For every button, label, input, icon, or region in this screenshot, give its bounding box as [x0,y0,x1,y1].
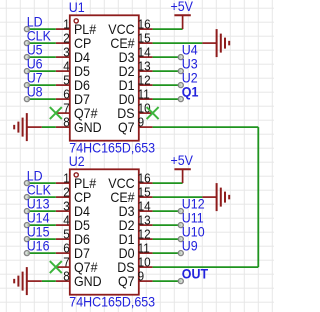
svg-text:13: 13 [138,213,151,227]
svg-text:5: 5 [63,227,70,241]
svg-text:3: 3 [63,199,70,213]
svg-text:6: 6 [63,241,70,255]
svg-text:2: 2 [63,31,70,45]
svg-text:U16: U16 [27,238,50,254]
svg-text:Q7: Q7 [118,119,135,135]
svg-text:2: 2 [63,185,70,199]
svg-text:4: 4 [63,59,70,73]
svg-text:+5V: +5V [170,153,193,169]
svg-text:7: 7 [63,101,70,115]
svg-text:11: 11 [138,241,150,255]
svg-text:14: 14 [138,45,151,59]
svg-text:U2: U2 [69,153,85,169]
svg-text:Q1: Q1 [182,84,199,100]
svg-text:4: 4 [63,213,70,227]
svg-text:14: 14 [138,199,151,213]
svg-text:OUT: OUT [182,266,208,282]
svg-text:GND: GND [74,119,102,135]
svg-text:15: 15 [138,31,151,45]
svg-text:7: 7 [63,255,70,269]
svg-text:11: 11 [138,87,150,101]
svg-text:8: 8 [63,269,70,283]
svg-text:U8: U8 [27,84,43,100]
svg-text:1: 1 [63,17,70,31]
svg-text:6: 6 [63,87,70,101]
svg-text:13: 13 [138,59,151,73]
svg-text:15: 15 [138,185,151,199]
svg-text:12: 12 [138,73,151,87]
svg-text:GND: GND [74,273,102,289]
svg-text:16: 16 [138,17,151,31]
svg-text:3: 3 [63,45,70,59]
svg-text:5: 5 [63,73,70,87]
svg-text:9: 9 [138,115,145,129]
svg-text:8: 8 [63,115,70,129]
svg-text:U1: U1 [69,0,85,15]
svg-text:+5V: +5V [170,0,193,14]
svg-text:10: 10 [138,255,151,269]
svg-text:Q7: Q7 [118,273,135,289]
svg-text:12: 12 [138,227,151,241]
svg-text:16: 16 [138,171,151,185]
svg-text:1: 1 [63,171,70,185]
svg-text:U9: U9 [182,238,198,254]
svg-text:74HC165D,653: 74HC165D,653 [69,294,155,310]
svg-text:9: 9 [138,269,145,283]
